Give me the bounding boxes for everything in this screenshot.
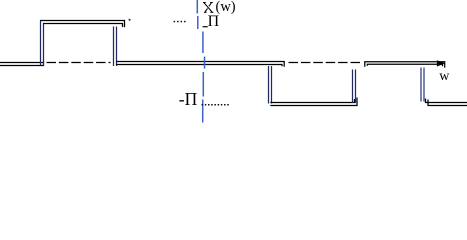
node dot right of top lobe <box>129 19 131 21</box>
dotted +pi level marker <box>174 21 186 23</box>
dotted -pi level marker <box>202 104 229 106</box>
wire wave up-step at lobe 1 left <box>41 21 44 66</box>
w axis name label <box>439 69 449 85</box>
wire wave top lobe at +pi level <box>40 21 125 28</box>
w-axis dashed segment under lobe 1 <box>47 62 111 64</box>
wire wave level-0 left segment <box>0 63 44 66</box>
wire wave bottom segment far right <box>426 99 467 106</box>
wire wave down-step at lobe 1 right <box>114 27 117 67</box>
wire wave up-step at lobe 2 right <box>353 70 356 104</box>
label -pi <box>179 89 197 110</box>
vertical axis blue dashed line <box>197 0 204 123</box>
wire wave down-step at lobe 2 left <box>269 66 272 104</box>
aleph glyph of axis label <box>204 3 213 13</box>
label pi (+pi level) <box>208 13 220 31</box>
underscore of +pi label <box>203 26 208 28</box>
wire wave bottom lobe at -pi level <box>270 98 357 106</box>
w-axis dashed segment under lobe 2 <box>289 62 363 64</box>
wire wave down-step far right <box>421 68 424 102</box>
wire wave level-0 middle segment <box>116 62 284 67</box>
w-axis arrowhead <box>437 60 445 66</box>
wire wave level-0 right segment <box>365 62 445 68</box>
axis label (w) <box>216 0 236 16</box>
